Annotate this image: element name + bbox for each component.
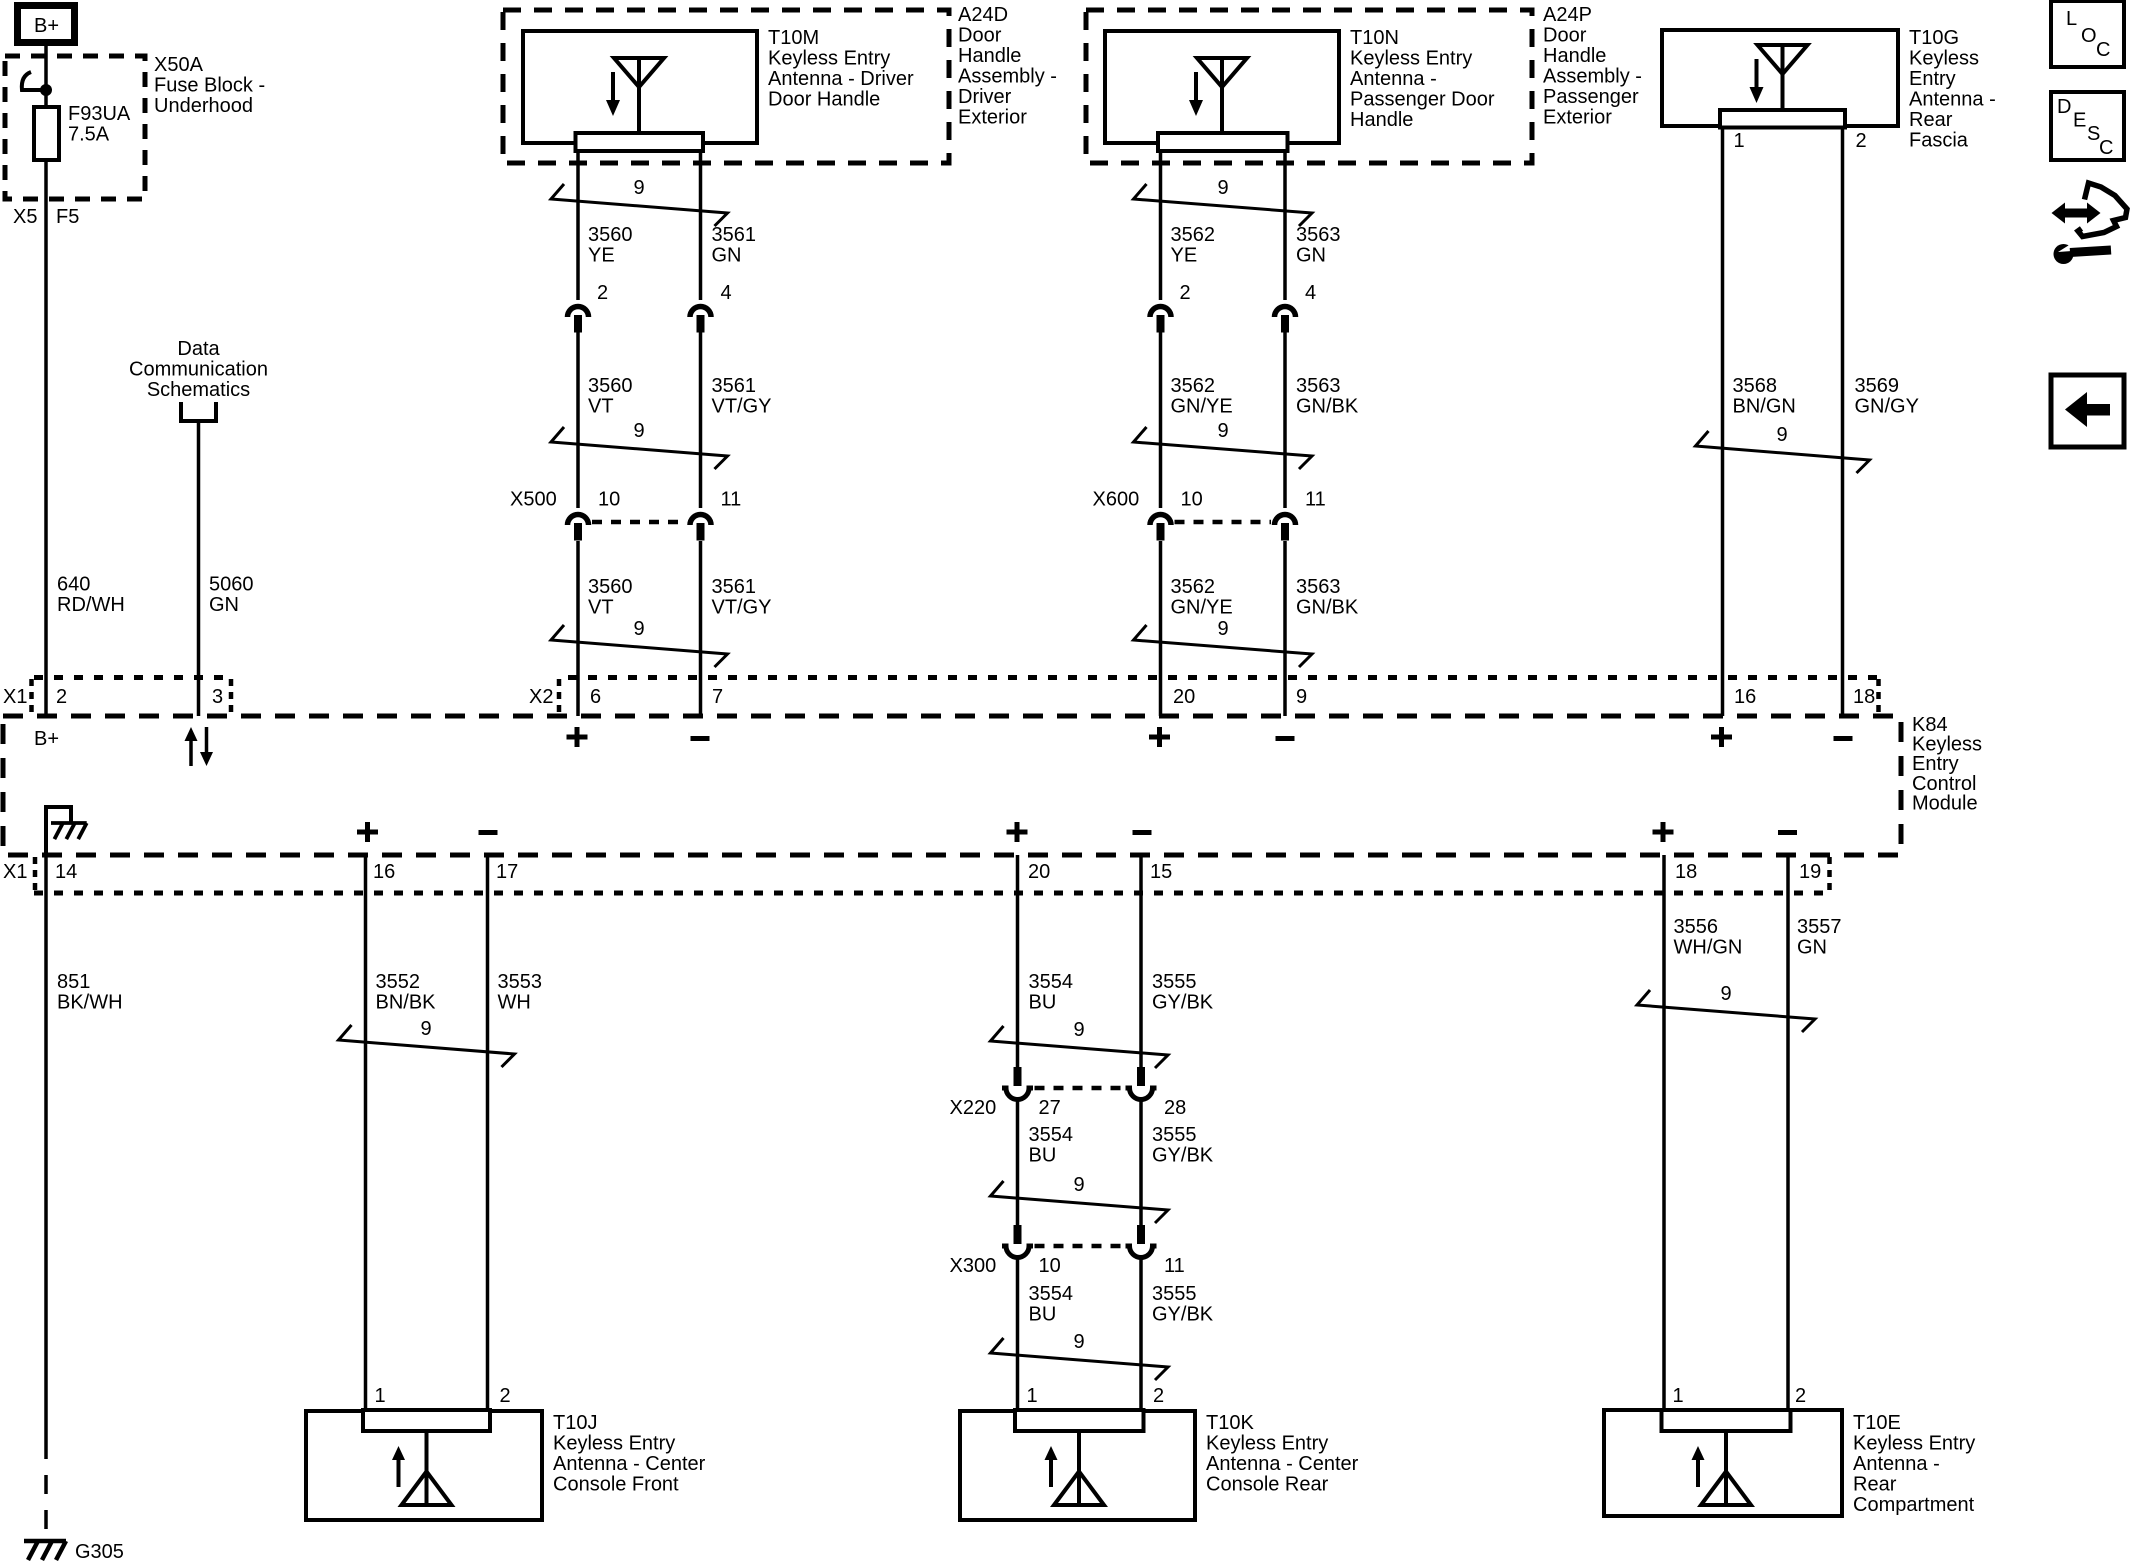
svg-text:3568: 3568: [1733, 375, 1778, 397]
wire 3562 GN/YE segment 2: [1159, 541, 1163, 716]
svg-text:20: 20: [1028, 861, 1050, 883]
icon button DESC: [2051, 92, 2124, 160]
antenna T10N symbol: [1189, 58, 1247, 134]
wire 3557 GN K84 pin 19 to T10E: [1786, 855, 1790, 1410]
svg-text:5060: 5060: [209, 574, 254, 596]
label wire 3562 GN/YE lower: [1171, 576, 1233, 619]
svg-text:3554: 3554: [1029, 1283, 1074, 1305]
svg-text:11: 11: [1305, 489, 1326, 511]
label wire 640 RD/WH: [57, 574, 125, 617]
inline connector X600: [1150, 515, 1296, 541]
icon button back arrow: [2051, 375, 2124, 447]
svg-text:A24P: A24P: [1543, 4, 1592, 26]
antenna T10K connector bar: [1015, 1410, 1144, 1431]
terminal clip at fuse feed: [22, 72, 46, 90]
antenna T10J connector bar: [363, 1410, 490, 1431]
svg-text:Entry: Entry: [1909, 68, 1956, 90]
svg-text:15: 15: [1150, 861, 1172, 883]
label wire 3563 GN/BK: [1296, 375, 1359, 418]
svg-text:Door: Door: [958, 25, 1002, 47]
svg-text:T10M: T10M: [768, 27, 819, 49]
svg-text:9: 9: [633, 177, 644, 199]
svg-text:GY/BK: GY/BK: [1152, 1304, 1214, 1326]
svg-text:Module: Module: [1912, 792, 1978, 814]
svg-text:18: 18: [1675, 861, 1697, 883]
svg-text:Keyless Entry: Keyless Entry: [1350, 48, 1472, 70]
svg-text:VT/GY: VT/GY: [712, 396, 772, 418]
label wire 3562 YE: [1171, 224, 1216, 267]
antenna T10J box: [306, 1411, 542, 1520]
wire B+ to fuse block: [44, 46, 48, 90]
svg-text:X300: X300: [950, 1255, 997, 1277]
wire 3555 GY/BK middle: [1139, 1100, 1143, 1225]
label wire 3557 GN: [1797, 916, 1842, 959]
module K84 bottom connector face X1 dotted line: [34, 891, 1829, 896]
svg-text:3562: 3562: [1171, 576, 1216, 598]
label wire 3569 GN/GY: [1855, 375, 1919, 418]
svg-text:7: 7: [712, 686, 723, 708]
svg-text:2: 2: [1856, 130, 1867, 152]
polarity + pin 16: [1711, 727, 1732, 747]
fuse F93UA 7.5A: [34, 107, 59, 160]
polarity - pin 15 bottom: [1133, 830, 1152, 835]
svg-text:Handle: Handle: [958, 45, 1021, 67]
svg-text:GN/BK: GN/BK: [1296, 396, 1359, 418]
polarity + pin 20 bottom: [1007, 822, 1028, 842]
svg-text:3561: 3561: [712, 576, 757, 598]
svg-text:9: 9: [633, 618, 644, 640]
svg-text:BU: BU: [1029, 992, 1057, 1014]
label wire 851 BK/WH: [57, 971, 123, 1014]
svg-text:RD/WH: RD/WH: [57, 594, 125, 616]
svg-text:10: 10: [1181, 489, 1203, 511]
icon vehicle outline with arrow and wrench: [2052, 183, 2128, 264]
antenna T10G connector bar: [1720, 110, 1845, 128]
svg-text:A24D: A24D: [958, 4, 1008, 26]
wire 3561 VT/GY segment: [699, 332, 703, 508]
svg-text:1: 1: [1027, 1385, 1038, 1407]
inline connector X500: [568, 515, 712, 541]
svg-text:3555: 3555: [1152, 1283, 1197, 1305]
svg-text:D: D: [2057, 96, 2071, 118]
svg-text:3560: 3560: [588, 375, 633, 397]
antenna T10E connector bar: [1662, 1410, 1791, 1431]
svg-text:1: 1: [1673, 1385, 1684, 1407]
svg-text:GN: GN: [712, 245, 742, 267]
svg-text:9: 9: [1073, 1019, 1084, 1041]
svg-text:3561: 3561: [712, 375, 757, 397]
svg-text:BK/WH: BK/WH: [57, 992, 123, 1014]
svg-text:9: 9: [1073, 1174, 1084, 1196]
svg-text:Antenna - Center: Antenna - Center: [1206, 1453, 1359, 1475]
svg-text:YE: YE: [588, 245, 615, 267]
svg-text:Schematics: Schematics: [147, 379, 250, 401]
wire 3554 BU middle: [1016, 1100, 1020, 1225]
twisted pair symbol T10K upper: [991, 1019, 1169, 1068]
label wire 3554 BU middle: [1029, 1124, 1074, 1167]
label wire 3562 GN/YE: [1171, 375, 1233, 418]
junction node B+ / fuse: [40, 84, 52, 96]
connector group separator right bottom: [1827, 857, 1832, 891]
antenna T10M box: [523, 31, 757, 143]
connector group separator X1 top: [29, 679, 34, 714]
label K84 Keyless Entry Control Module: [1912, 714, 1982, 814]
label T10E Keyless Entry Antenna - Rear Compartment: [1853, 1412, 1975, 1516]
svg-text:10: 10: [598, 489, 620, 511]
wire 3555 GY/BK lower: [1139, 1258, 1143, 1410]
label wire 3563 GN/BK lower: [1296, 576, 1359, 619]
svg-text:3555: 3555: [1152, 1124, 1197, 1146]
svg-text:X600: X600: [1093, 489, 1140, 511]
icon DESC letters: [2057, 96, 2113, 159]
wire 3563 GN segment: [1283, 151, 1287, 300]
svg-text:BU: BU: [1029, 1145, 1057, 1167]
antenna T10M connector bar: [576, 133, 704, 151]
svg-text:Driver: Driver: [958, 86, 1012, 108]
svg-text:O: O: [2081, 25, 2097, 47]
antenna T10N connector bar: [1158, 133, 1288, 151]
svg-text:3563: 3563: [1296, 576, 1341, 598]
svg-text:Door: Door: [1543, 25, 1587, 47]
svg-text:X1: X1: [3, 686, 27, 708]
svg-text:3561: 3561: [712, 224, 757, 246]
svg-text:3557: 3557: [1797, 916, 1842, 938]
svg-text:9: 9: [1217, 177, 1228, 199]
svg-text:GN/GY: GN/GY: [1855, 396, 1919, 418]
svg-text:14: 14: [55, 861, 77, 883]
twisted pair symbol T10G: [1696, 424, 1870, 473]
svg-text:F93UA: F93UA: [68, 103, 131, 125]
svg-text:3563: 3563: [1296, 224, 1341, 246]
polarity - pin 9: [1276, 736, 1295, 741]
twisted pair symbol T10K middle: [991, 1174, 1169, 1223]
svg-text:19: 19: [1799, 861, 1821, 883]
svg-text:18: 18: [1853, 686, 1875, 708]
svg-text:27: 27: [1039, 1097, 1061, 1119]
svg-text:T10K: T10K: [1206, 1412, 1254, 1434]
svg-text:GN/BK: GN/BK: [1296, 597, 1359, 619]
svg-text:851: 851: [57, 971, 90, 993]
label T10J Keyless Entry Antenna - Center Console Front: [553, 1412, 706, 1496]
inline connector X220: [1002, 1067, 1157, 1100]
label wire 3555 GY/BK upper: [1152, 971, 1214, 1014]
svg-text:GN: GN: [1797, 937, 1827, 959]
wire 3560 VT segment 2: [576, 541, 580, 716]
label wire 3555 GY/BK lower: [1152, 1283, 1214, 1326]
svg-text:2: 2: [1180, 282, 1191, 304]
label T10M Keyless Entry Antenna - Driver Door Handle: [768, 27, 914, 111]
svg-text:10: 10: [1039, 1255, 1061, 1277]
twisted pair symbol T10M middle: [551, 420, 728, 469]
inline terminal T10M pin 4: [690, 307, 711, 333]
svg-text:GN: GN: [1296, 245, 1326, 267]
svg-text:G305: G305: [75, 1541, 124, 1562]
svg-text:X2: X2: [529, 686, 553, 708]
svg-text:4: 4: [721, 282, 732, 304]
antenna T10K box: [960, 1411, 1195, 1520]
svg-text:9: 9: [420, 1018, 431, 1040]
inline connector X300: [1002, 1225, 1157, 1258]
svg-text:3563: 3563: [1296, 375, 1341, 397]
label wire 3556 WH/GN: [1674, 916, 1743, 959]
internal chassis ground symbol: [51, 823, 87, 839]
wire 640 RD/WH fuse to K84 pin 2: [44, 160, 48, 716]
inline terminal T10N pin 2: [1150, 307, 1171, 333]
svg-text:7.5A: 7.5A: [68, 124, 110, 146]
svg-text:X5: X5: [13, 206, 37, 228]
svg-text:Keyless Entry: Keyless Entry: [1853, 1433, 1975, 1455]
polarity - pin 18: [1834, 736, 1853, 741]
label X50A Fuse Block - Underhood: [154, 54, 265, 117]
polarity - pin 17 bottom: [479, 830, 498, 835]
door handle assembly A24P dashed outline: [1086, 10, 1532, 163]
svg-text:Passenger: Passenger: [1543, 86, 1639, 108]
svg-text:640: 640: [57, 574, 90, 596]
inline terminal T10M pin 2: [568, 307, 589, 333]
svg-text:3554: 3554: [1029, 971, 1074, 993]
svg-text:E: E: [2073, 110, 2086, 132]
label wire 5060 GN: [209, 574, 254, 617]
svg-text:C: C: [2099, 137, 2113, 159]
svg-text:16: 16: [1734, 686, 1756, 708]
wire 3553 WH K84 pin 17 to T10J: [486, 855, 490, 1410]
svg-text:Data: Data: [177, 338, 220, 360]
antenna T10G symbol: [1750, 45, 1808, 111]
wire 3563 GN/BK segment 2: [1283, 541, 1287, 716]
wire 3556 WH/GN K84 pin 18 to T10E: [1662, 855, 1666, 1410]
svg-text:L: L: [2066, 8, 2077, 30]
svg-text:6: 6: [590, 686, 601, 708]
svg-text:Keyless: Keyless: [1909, 48, 1979, 70]
wire 5060 GN to K84 pin 3: [197, 421, 201, 716]
svg-text:Door Handle: Door Handle: [768, 89, 880, 111]
svg-text:Keyless Entry: Keyless Entry: [553, 1433, 675, 1455]
label A24D Door Handle Assembly - Driver Exterior: [958, 4, 1057, 129]
svg-text:17: 17: [496, 861, 518, 883]
label T10N Keyless Entry Antenna - Passenger Door Handle: [1350, 27, 1495, 131]
svg-text:2: 2: [56, 686, 67, 708]
svg-text:Keyless Entry: Keyless Entry: [768, 48, 890, 70]
label wire 3554 BU upper: [1029, 971, 1074, 1014]
svg-text:BU: BU: [1029, 1304, 1057, 1326]
twisted pair symbol T10M lower: [551, 618, 728, 667]
polarity + pin 20: [1149, 727, 1170, 747]
fuse block X50A dashed outline: [5, 56, 145, 199]
label wire 3555 GY/BK middle: [1152, 1124, 1214, 1167]
connector group separator X2: [557, 679, 562, 714]
svg-text:3553: 3553: [498, 971, 543, 993]
svg-text:9: 9: [1776, 424, 1787, 446]
svg-text:9: 9: [1296, 686, 1307, 708]
svg-text:Assembly -: Assembly -: [958, 66, 1057, 88]
svg-text:T10J: T10J: [553, 1412, 597, 1434]
svg-text:WH/GN: WH/GN: [1674, 937, 1743, 959]
svg-text:Fascia: Fascia: [1909, 130, 1969, 152]
svg-text:GY/BK: GY/BK: [1152, 992, 1214, 1014]
connector group separator right top: [1876, 679, 1881, 714]
twisted pair symbol T10E: [1637, 983, 1815, 1032]
icon LOC letters: [2066, 8, 2110, 61]
svg-text:Rear: Rear: [1909, 109, 1953, 131]
svg-text:3562: 3562: [1171, 375, 1216, 397]
svg-text:Exterior: Exterior: [958, 107, 1027, 129]
wire 3561 GN segment: [699, 151, 703, 300]
connector group separator after pin 3: [229, 679, 234, 714]
twisted pair symbol T10N upper: [1134, 177, 1313, 226]
svg-text:F5: F5: [56, 206, 79, 228]
antenna T10E symbol: [1692, 1431, 1752, 1505]
label wire 3560 VT: [588, 375, 633, 418]
svg-text:Underhood: Underhood: [154, 95, 253, 117]
twisted pair symbol T10N middle: [1134, 420, 1313, 469]
polarity - pin 19 bottom: [1778, 830, 1797, 835]
svg-text:Antenna - Driver: Antenna - Driver: [768, 68, 914, 90]
svg-text:11: 11: [721, 489, 742, 511]
svg-text:VT: VT: [588, 597, 614, 619]
connector group separator X1 bottom: [33, 857, 38, 891]
svg-text:B+: B+: [34, 728, 59, 750]
svg-text:Communication: Communication: [129, 359, 268, 381]
svg-text:C: C: [2096, 39, 2110, 61]
svg-text:X1: X1: [3, 861, 27, 883]
polarity - pin 7: [691, 736, 710, 741]
wire 3569 GN/GY: [1841, 128, 1845, 717]
wire to G305 dashed future segment: [44, 1440, 48, 1541]
label wire 3561 VT/GY lower: [712, 576, 772, 619]
svg-text:Antenna - Center: Antenna - Center: [553, 1453, 706, 1475]
label F93UA 7.5A: [68, 103, 131, 146]
svg-text:Exterior: Exterior: [1543, 107, 1612, 129]
twisted pair symbol T10M upper: [551, 177, 728, 226]
module K84 top connector face X2 dotted line: [568, 675, 1878, 680]
wire fuse feed: [44, 90, 48, 107]
svg-text:X220: X220: [950, 1097, 997, 1119]
svg-text:Keyless Entry: Keyless Entry: [1206, 1433, 1328, 1455]
label Data Communication Schematics: [129, 338, 268, 401]
svg-text:VT: VT: [588, 396, 614, 418]
icon back arrow glyph: [2065, 392, 2110, 427]
wire 3552 BN/BK K84 pin 16 to T10J: [364, 855, 368, 1410]
inline terminal T10N pin 4: [1275, 307, 1296, 333]
svg-text:Rear: Rear: [1853, 1474, 1897, 1496]
antenna T10E box: [1604, 1410, 1842, 1516]
internal ground hook pin 14: [46, 807, 71, 855]
label wire 3568 BN/GN: [1733, 375, 1796, 418]
wire 851 BK/WH K84 pin 14 to ground: [44, 855, 48, 1440]
polarity + pin 16 bottom: [357, 822, 378, 842]
svg-text:Compartment: Compartment: [1853, 1494, 1975, 1516]
label wire 3554 BU lower: [1029, 1283, 1074, 1326]
svg-text:T10E: T10E: [1853, 1412, 1901, 1434]
svg-text:3560: 3560: [588, 576, 633, 598]
svg-text:3555: 3555: [1152, 971, 1197, 993]
svg-text:9: 9: [1073, 1331, 1084, 1353]
svg-text:Handle: Handle: [1350, 109, 1413, 131]
module K84 top connector face X1 dotted line: [34, 675, 231, 680]
svg-text:Handle: Handle: [1543, 45, 1606, 67]
wire 3560 YE segment: [576, 151, 580, 300]
svg-text:3552: 3552: [376, 971, 421, 993]
svg-text:9: 9: [1217, 420, 1228, 442]
antenna T10K symbol: [1045, 1431, 1105, 1505]
label wire 3560 YE: [588, 224, 633, 267]
svg-text:VT/GY: VT/GY: [712, 597, 772, 619]
wire 3554 BU K84 pin 20 to X220: [1016, 855, 1020, 1067]
svg-text:WH: WH: [498, 992, 531, 1014]
svg-text:4: 4: [1305, 282, 1316, 304]
wire 3563 GN/BK segment: [1283, 332, 1287, 508]
label T10K Keyless Entry Antenna - Center Console Rear: [1206, 1412, 1359, 1496]
antenna T10M symbol: [606, 58, 664, 134]
svg-text:20: 20: [1173, 686, 1195, 708]
svg-text:Console Rear: Console Rear: [1206, 1474, 1329, 1496]
wire 3562 GN/YE segment: [1159, 332, 1163, 508]
antenna T10N box: [1105, 31, 1339, 143]
ground G305 chassis symbol: [24, 1541, 66, 1560]
wire 3555 GY/BK K84 pin 15 to X220: [1139, 855, 1143, 1067]
label wire 3561 GN: [712, 224, 757, 267]
label wire 3563 GN: [1296, 224, 1341, 267]
wire 3568 BN/GN: [1721, 128, 1725, 717]
twisted pair symbol T10K lower: [991, 1331, 1169, 1380]
svg-text:GN/YE: GN/YE: [1171, 597, 1233, 619]
svg-text:BN/GN: BN/GN: [1733, 396, 1796, 418]
antenna T10G box: [1662, 30, 1898, 126]
wire 3554 BU lower: [1016, 1258, 1020, 1410]
svg-text:Console Front: Console Front: [553, 1474, 679, 1496]
svg-text:T10G: T10G: [1909, 27, 1959, 49]
svg-text:GN/YE: GN/YE: [1171, 396, 1233, 418]
svg-text:Antenna -: Antenna -: [1909, 89, 1996, 111]
svg-text:BN/BK: BN/BK: [376, 992, 437, 1014]
svg-text:YE: YE: [1171, 245, 1198, 267]
svg-text:3: 3: [212, 686, 223, 708]
svg-text:B+: B+: [34, 15, 59, 37]
svg-text:3554: 3554: [1029, 1124, 1074, 1146]
svg-text:Antenna -: Antenna -: [1350, 68, 1437, 90]
off-page bracket Data Communication: [181, 402, 216, 421]
wire 3561 VT/GY segment 2: [699, 541, 703, 716]
door handle assembly A24D dashed outline: [503, 10, 949, 163]
twisted pair symbol T10N lower: [1134, 618, 1313, 667]
svg-text:3556: 3556: [1674, 916, 1719, 938]
polarity + pin 6: [567, 727, 588, 747]
antenna T10J symbol: [392, 1431, 452, 1505]
polarity + pin 18 bottom: [1653, 822, 1674, 842]
svg-text:2: 2: [1153, 1385, 1164, 1407]
svg-text:1: 1: [375, 1385, 386, 1407]
label wire 3553 WH: [498, 971, 543, 1014]
svg-text:3560: 3560: [588, 224, 633, 246]
label A24P Door Handle Assembly - Passenger Exterior: [1543, 4, 1642, 129]
label T10G Keyless Entry Antenna - Rear Fascia: [1909, 27, 1996, 152]
svg-text:X500: X500: [510, 489, 557, 511]
twisted pair symbol T10J: [339, 1018, 515, 1067]
svg-text:GN: GN: [209, 594, 239, 616]
svg-text:Passenger Door: Passenger Door: [1350, 89, 1495, 111]
serial data arrows at pin 3: [185, 727, 214, 766]
svg-text:3562: 3562: [1171, 224, 1216, 246]
label wire 3560 VT lower: [588, 576, 633, 619]
svg-text:GY/BK: GY/BK: [1152, 1145, 1214, 1167]
svg-text:T10N: T10N: [1350, 27, 1399, 49]
svg-text:2: 2: [500, 1385, 511, 1407]
svg-text:9: 9: [1720, 983, 1731, 1005]
svg-text:9: 9: [633, 420, 644, 442]
module K84 boundary dashed box: [3, 716, 1901, 855]
svg-text:28: 28: [1164, 1097, 1186, 1119]
power symbol B+ battery feed: [18, 6, 75, 43]
